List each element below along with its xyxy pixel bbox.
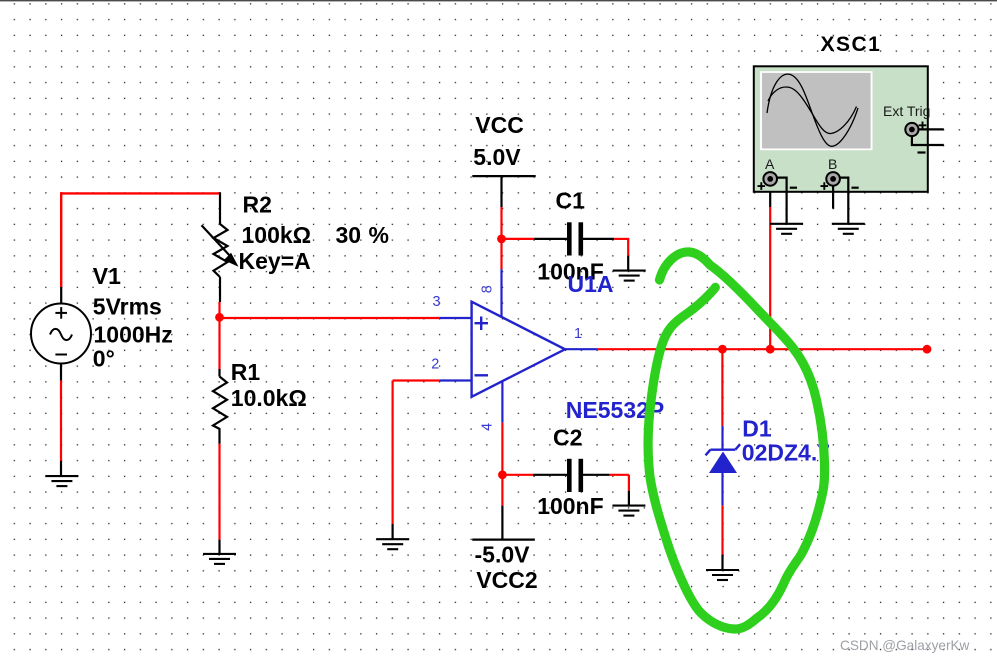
svg-text:C2: C2 [553,425,582,451]
svg-text:XSC1: XSC1 [821,33,882,56]
svg-text:VCC2: VCC2 [476,567,537,593]
svg-text:U1A: U1A [568,271,614,297]
svg-text:10.0kΩ: 10.0kΩ [231,385,307,411]
svg-text:A: A [765,156,775,172]
svg-text:VCC: VCC [475,112,524,138]
svg-text:C1: C1 [556,188,586,214]
svg-text:3: 3 [433,294,441,310]
svg-text:V1: V1 [93,263,121,289]
svg-text:5.0V: 5.0V [473,144,521,170]
svg-text:1: 1 [574,326,582,342]
svg-text:02DZ4.7: 02DZ4.7 [742,440,830,466]
svg-text:%: % [369,222,389,248]
svg-text:B: B [828,156,837,172]
svg-text:100nF: 100nF [537,493,603,519]
svg-text:Ext Trig: Ext Trig [883,103,930,119]
svg-text:Key=A: Key=A [239,248,311,274]
svg-text:-5.0V: -5.0V [475,542,531,568]
svg-text:1000Hz: 1000Hz [94,322,173,348]
svg-text:R2: R2 [243,192,272,218]
svg-text:8: 8 [480,285,496,293]
svg-text:2: 2 [431,357,439,373]
svg-text:D1: D1 [742,416,772,442]
svg-text:R1: R1 [231,359,261,385]
svg-text:CSDN @GalaxyerKw: CSDN @GalaxyerKw [840,638,970,653]
svg-text:0°: 0° [93,345,115,371]
svg-text:4: 4 [480,423,496,431]
svg-text:100kΩ: 100kΩ [242,222,312,248]
svg-text:30: 30 [336,222,362,248]
svg-text:5Vrms: 5Vrms [93,294,162,320]
